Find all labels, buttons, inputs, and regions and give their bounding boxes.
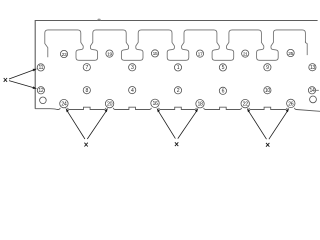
svg-text:10: 10 <box>265 88 270 94</box>
hat 1 left lower edge <box>45 43 48 58</box>
port hat 4 <box>184 30 217 43</box>
svg-text:21: 21 <box>243 51 248 57</box>
bolt 2 <box>174 87 181 94</box>
bolt 9 <box>264 64 271 71</box>
bolt 15 <box>151 50 158 57</box>
bolt 16 <box>151 99 159 107</box>
port hat 1 <box>45 30 81 43</box>
bolt 20 <box>105 99 113 107</box>
port hat 3 <box>138 30 172 43</box>
plain hole right <box>310 96 317 103</box>
small tab on top edge <box>98 19 101 20</box>
bolt 23 <box>60 50 67 57</box>
bolt pocket between ports 4-5 <box>212 42 234 60</box>
label X left <box>4 78 7 82</box>
label X bottom 1 <box>84 143 87 147</box>
port hat 6 <box>273 30 305 43</box>
bolt 14 <box>308 87 315 94</box>
bolt 7 <box>83 64 90 71</box>
bolt 18 <box>196 100 204 108</box>
svg-text:23: 23 <box>62 52 67 58</box>
bolt 12 <box>37 87 44 94</box>
svg-text:13: 13 <box>310 65 315 71</box>
bolt pocket between ports 2-3 <box>121 42 143 60</box>
svg-text:15: 15 <box>153 51 158 57</box>
leader X1 to bolt at 110 <box>87 108 108 139</box>
leader X2 to bolt at 155 <box>157 108 176 139</box>
bolt 21 <box>242 50 249 57</box>
plain hole left <box>40 97 47 104</box>
leader X2 to bolt at 200 <box>178 108 199 139</box>
bolt 11 <box>37 64 44 71</box>
label X bottom 3 <box>266 143 269 147</box>
svg-text:18: 18 <box>197 102 203 108</box>
bolt 13 <box>309 64 316 71</box>
svg-text:22: 22 <box>243 101 249 107</box>
port hat 2 <box>93 30 126 43</box>
head outline bottom edge with notches <box>35 107 320 111</box>
svg-text:17: 17 <box>198 51 203 57</box>
svg-text:24: 24 <box>61 101 67 107</box>
svg-text:19: 19 <box>107 51 112 57</box>
bolt 19 <box>106 50 113 57</box>
bolt 10 <box>264 87 271 94</box>
tick right of bolt 14 <box>316 89 319 91</box>
bolt 17 <box>196 50 203 57</box>
leader X to bolt 12 <box>9 81 37 89</box>
bolt 25 <box>287 49 294 56</box>
svg-text:14: 14 <box>310 88 315 94</box>
bolt 4 <box>129 87 136 94</box>
bolt pocket between ports 3-4 <box>167 42 189 60</box>
bolt 6 <box>219 87 226 94</box>
bolt 8 <box>83 87 90 94</box>
head outline top and left edge <box>35 21 317 109</box>
leader X to bolt 11 <box>9 69 37 79</box>
bolt 5 <box>219 64 226 71</box>
svg-text:26: 26 <box>288 101 294 107</box>
svg-text:12: 12 <box>38 88 43 94</box>
svg-text:25: 25 <box>288 51 293 57</box>
svg-text:16: 16 <box>152 101 158 107</box>
svg-text:20: 20 <box>107 101 113 107</box>
hat 6 right lower edge <box>305 41 307 55</box>
bolt 26 <box>287 99 295 107</box>
bolt pocket between ports 1-2 <box>76 42 98 60</box>
bolt 22 <box>241 99 249 107</box>
bolt pocket between ports 5-6 <box>257 42 279 60</box>
leader X3 to bolt at 245 <box>247 108 267 139</box>
bolt 1 <box>174 64 181 71</box>
leader X1 to bolt at 64 <box>66 108 85 139</box>
svg-text:11: 11 <box>39 65 44 71</box>
leader X3 to bolt at 291 <box>269 108 289 139</box>
bolt 24 <box>60 99 68 107</box>
label X bottom 2 <box>175 142 178 146</box>
port hat 5 <box>229 30 262 43</box>
bolt 3 <box>129 64 136 71</box>
